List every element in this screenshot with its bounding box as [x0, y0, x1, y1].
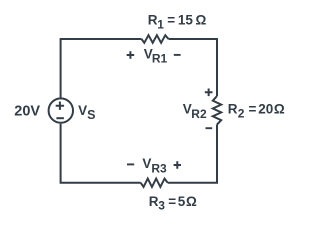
svg-text:2: 2	[238, 107, 245, 121]
label VR1 minus	[174, 54, 181, 56]
svg-text:1: 1	[157, 18, 164, 32]
label VR2 minus	[206, 127, 213, 129]
label VR2 plus	[205, 88, 213, 96]
label VS	[78, 103, 95, 122]
svg-text:R: R	[149, 194, 159, 209]
wire bottom-left segment	[61, 124, 141, 183]
resistor R3	[141, 179, 168, 187]
svg-text:S: S	[87, 108, 95, 122]
label R2 value	[228, 102, 285, 121]
svg-text:R: R	[228, 102, 238, 117]
svg-text:R3: R3	[151, 161, 167, 175]
resistor R2	[213, 96, 221, 125]
svg-text:5: 5	[178, 194, 186, 209]
label R1 value	[148, 13, 207, 32]
svg-text:V: V	[78, 103, 87, 118]
svg-text:=: =	[168, 194, 176, 209]
svg-text:=: =	[249, 102, 257, 117]
svg-text:15: 15	[178, 13, 194, 28]
svg-text:Ω: Ω	[274, 102, 285, 117]
svg-text:R2: R2	[191, 107, 207, 121]
label VR3 plus	[174, 161, 181, 168]
wire top-right segment	[169, 39, 218, 96]
label VR3	[142, 156, 167, 176]
wire right-bottom segment	[168, 125, 217, 183]
label VR1	[144, 47, 168, 66]
svg-text:20V: 20V	[14, 104, 40, 120]
svg-text:=: =	[167, 13, 175, 28]
svg-text:3: 3	[158, 199, 165, 213]
label VR2	[183, 101, 207, 121]
svg-text:Ω: Ω	[196, 13, 207, 28]
svg-text:20: 20	[258, 102, 273, 117]
wire top-left segment	[61, 39, 142, 98]
svg-text:Ω: Ω	[186, 194, 197, 209]
label VR3 minus	[127, 163, 134, 165]
svg-text:R: R	[148, 13, 158, 28]
resistor R1	[142, 35, 169, 43]
voltage source VS circle	[49, 98, 73, 122]
svg-text:R1: R1	[152, 52, 168, 66]
label R3 value	[149, 194, 197, 213]
label VR1 plus	[127, 51, 134, 59]
VS plus sign	[56, 102, 64, 110]
svg-text:V: V	[142, 156, 151, 171]
VS minus sign	[56, 117, 64, 119]
